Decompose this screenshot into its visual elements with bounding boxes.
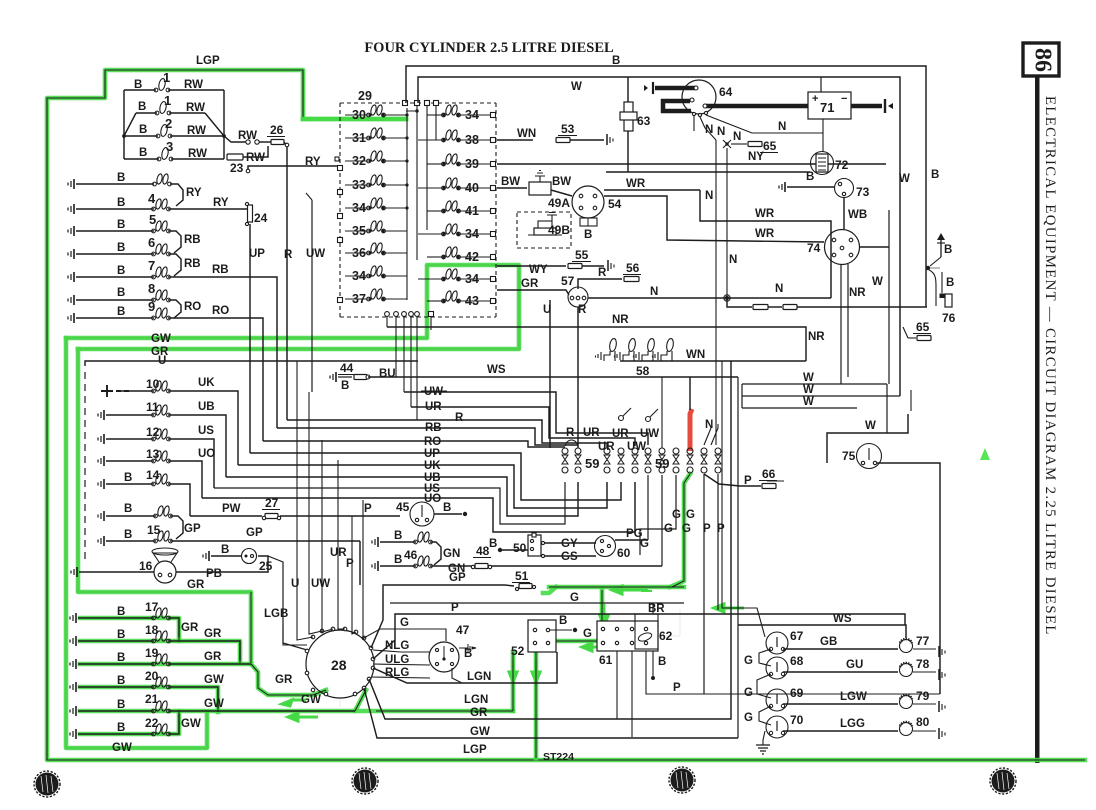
svg-text:B: B bbox=[117, 306, 125, 318]
svg-text:UP: UP bbox=[249, 248, 265, 260]
wire 44 BU bbox=[330, 361, 396, 392]
svg-text:37: 37 bbox=[352, 292, 366, 306]
svg-text:WR: WR bbox=[755, 208, 775, 220]
svg-text:RB: RB bbox=[184, 258, 201, 270]
svg-text:GW: GW bbox=[204, 698, 224, 710]
green wire label LGP top bbox=[196, 55, 220, 67]
svg-text:2: 2 bbox=[165, 116, 172, 131]
wire GP lower bbox=[359, 541, 361, 585]
wire LGG 80 bbox=[783, 718, 898, 731]
label GP line15 bbox=[246, 527, 263, 539]
label G near 51 bbox=[570, 592, 579, 604]
svg-text:+: + bbox=[812, 93, 818, 105]
wire R to fuse 56 bbox=[578, 261, 641, 289]
labels fan U UW bbox=[291, 578, 330, 590]
coil 31 left column y138 bbox=[345, 127, 407, 145]
svg-text:29: 29 bbox=[358, 89, 372, 103]
label B 8 bbox=[117, 281, 155, 299]
label B 5 bbox=[117, 212, 156, 231]
svg-text:73: 73 bbox=[856, 185, 870, 199]
labels fan UR P bbox=[330, 547, 354, 570]
svg-text:W: W bbox=[865, 420, 876, 432]
connector box 29 dashed outline bbox=[340, 89, 496, 317]
svg-text:GY: GY bbox=[561, 538, 578, 550]
svg-text:B: B bbox=[117, 629, 125, 641]
svg-text:B: B bbox=[139, 147, 147, 159]
green wire G 51 fuse run bbox=[549, 585, 684, 590]
glow plug 1a row bbox=[124, 78, 224, 92]
svg-text:B: B bbox=[117, 699, 125, 711]
svg-text:9: 9 bbox=[148, 299, 155, 314]
svg-text:B: B bbox=[559, 615, 567, 627]
component 18 bbox=[70, 623, 240, 660]
relay 49B dashed box bbox=[517, 212, 571, 248]
svg-text:G: G bbox=[744, 712, 753, 724]
wire NR band bbox=[387, 314, 825, 361]
svg-text:GR: GR bbox=[275, 674, 293, 686]
connector 61 62 bbox=[597, 621, 658, 667]
component 6 bbox=[68, 243, 181, 276]
svg-text:B: B bbox=[117, 197, 125, 209]
label 59 first bbox=[585, 456, 599, 471]
wire 23 RW hook bbox=[243, 146, 268, 164]
wire 25 down LGB bbox=[264, 556, 307, 650]
svg-text:20: 20 bbox=[145, 669, 159, 683]
svg-text:54: 54 bbox=[608, 197, 622, 211]
svg-text:N: N bbox=[729, 254, 737, 266]
svg-text:B: B bbox=[134, 79, 142, 91]
wire LGN upper bbox=[339, 698, 341, 707]
green wire 59 pin down bbox=[670, 474, 690, 587]
wire 59 G drops bbox=[640, 475, 676, 566]
wire RB stair bbox=[277, 428, 578, 445]
green wire item18 row bbox=[80, 641, 240, 663]
svg-text:GU: GU bbox=[846, 659, 863, 671]
svg-text:B: B bbox=[117, 242, 125, 254]
svg-text:B: B bbox=[117, 287, 125, 299]
svg-text:B: B bbox=[117, 172, 125, 184]
svg-text:49A: 49A bbox=[548, 196, 570, 210]
wire cluster left upper bbox=[283, 625, 307, 645]
wire B dot 52 bbox=[550, 615, 577, 632]
svg-text:U: U bbox=[158, 355, 166, 367]
svg-text:LGP: LGP bbox=[196, 55, 220, 67]
wire NR from 74 bbox=[848, 264, 866, 377]
wire W down from 74 bbox=[840, 264, 842, 384]
glow plug 2 row bbox=[125, 124, 224, 138]
wire N diag to 72 bbox=[706, 115, 823, 152]
label RB line bbox=[425, 422, 442, 434]
connector box bottom pins bbox=[385, 312, 434, 317]
svg-text:42: 42 bbox=[465, 250, 479, 264]
label GW green line bbox=[151, 333, 171, 345]
svg-text:W: W bbox=[899, 173, 910, 185]
component 64 starter solenoid bbox=[682, 80, 733, 114]
component 19 bbox=[70, 646, 251, 669]
wire GY bbox=[545, 538, 596, 550]
svg-text:ULG: ULG bbox=[385, 654, 409, 666]
wire P 62 down bbox=[646, 651, 940, 694]
wire feed 67 bbox=[722, 361, 765, 637]
svg-text:23: 23 bbox=[230, 161, 244, 175]
wire GR row to 57 bbox=[497, 278, 569, 295]
label B 3 RW row4 bbox=[139, 139, 207, 160]
svg-text:G: G bbox=[664, 523, 673, 535]
wire WN row bbox=[497, 122, 613, 145]
wire 58 drop to 59 bbox=[661, 377, 663, 448]
svg-text:UR: UR bbox=[583, 427, 600, 439]
svg-text:25: 25 bbox=[259, 559, 273, 573]
svg-text:B: B bbox=[124, 472, 132, 484]
svg-text:PB: PB bbox=[206, 568, 222, 580]
green arrows misc bbox=[509, 586, 744, 682]
label B 4 bbox=[117, 191, 229, 209]
svg-text:B: B bbox=[946, 277, 954, 289]
label GN hook46 bbox=[443, 548, 460, 560]
wire WN 58 row bbox=[620, 349, 806, 361]
lamp 77 bbox=[900, 634, 946, 657]
sidebar thick rule bbox=[1035, 75, 1040, 763]
svg-text:49B: 49B bbox=[548, 223, 570, 237]
svg-text:GR: GR bbox=[521, 278, 539, 290]
connector 59 bank2 pins bbox=[659, 448, 721, 473]
svg-text:N: N bbox=[775, 283, 783, 295]
svg-text:B: B bbox=[944, 244, 952, 256]
component 8 bbox=[68, 289, 181, 318]
coil 34 left column y276 bbox=[345, 265, 407, 283]
svg-text:B: B bbox=[117, 675, 125, 687]
svg-text:30: 30 bbox=[352, 108, 366, 122]
svg-text:19: 19 bbox=[145, 646, 159, 660]
component 21 bbox=[70, 692, 355, 716]
glow plug diagonals bbox=[122, 113, 226, 138]
svg-text:16: 16 bbox=[139, 559, 153, 573]
wire GW bottom bbox=[364, 688, 738, 738]
label GW bottomleft bbox=[112, 742, 132, 754]
title FOUR CYLINDER 2.5 LITRE DIESEL bbox=[364, 40, 614, 56]
svg-text:B: B bbox=[139, 124, 147, 136]
green wire row30 highlight bbox=[303, 117, 406, 122]
coil 43 right column y301 bbox=[427, 290, 496, 308]
svg-text:GW: GW bbox=[181, 718, 201, 730]
svg-text:86: 86 bbox=[1029, 48, 1055, 72]
svg-text:28: 28 bbox=[331, 657, 347, 673]
svg-text:77: 77 bbox=[916, 634, 930, 648]
svg-text:GW: GW bbox=[112, 742, 132, 754]
svg-text:P: P bbox=[364, 503, 372, 515]
label R line bbox=[455, 412, 464, 424]
svg-text:UK: UK bbox=[198, 377, 215, 389]
wire UP stair bbox=[250, 448, 621, 500]
svg-text:LGW: LGW bbox=[840, 691, 867, 703]
label RB hook6 bbox=[184, 258, 201, 270]
svg-text:P: P bbox=[744, 475, 752, 487]
wire P from cluster bbox=[373, 602, 905, 659]
svg-text:72: 72 bbox=[835, 158, 849, 172]
svg-text:N: N bbox=[705, 190, 713, 202]
wire GP from cluster bbox=[371, 572, 514, 648]
svg-text:WN: WN bbox=[517, 128, 536, 140]
fuse 26 bbox=[267, 123, 285, 145]
wire fuse26 down bbox=[284, 142, 289, 166]
wire W to 75 bbox=[827, 384, 911, 463]
svg-text:75: 75 bbox=[842, 449, 856, 463]
green wire item17 loop bbox=[80, 618, 179, 641]
wire BW row bbox=[497, 176, 527, 188]
svg-text:64: 64 bbox=[719, 85, 733, 99]
wire P66 bbox=[704, 467, 784, 489]
svg-text:21: 21 bbox=[145, 692, 159, 706]
switch 68 bbox=[766, 654, 804, 679]
svg-text:52: 52 bbox=[511, 644, 525, 658]
wire RLG bbox=[371, 667, 430, 679]
svg-text:33: 33 bbox=[352, 178, 366, 192]
wire W right of 74 bbox=[859, 210, 889, 384]
svg-text:W: W bbox=[571, 81, 582, 93]
svg-text:RY: RY bbox=[213, 197, 229, 209]
svg-text:UB: UB bbox=[198, 401, 215, 413]
svg-text:GB: GB bbox=[820, 636, 837, 648]
wire RW to fuse 26 bbox=[224, 130, 271, 144]
coil 34 right column y115 bbox=[427, 104, 496, 122]
svg-text:1: 1 bbox=[163, 70, 170, 85]
svg-text:65: 65 bbox=[916, 320, 930, 334]
component 22 bbox=[70, 714, 179, 739]
lamp 45 bbox=[396, 500, 434, 526]
svg-text:GW: GW bbox=[151, 333, 171, 345]
coil 41 right column y211 bbox=[427, 200, 496, 218]
label ST224 bbox=[543, 751, 574, 763]
component 74 bbox=[807, 230, 860, 265]
switch 67 bbox=[766, 629, 804, 654]
svg-text:B: B bbox=[117, 652, 125, 664]
svg-text:W: W bbox=[803, 384, 814, 396]
wire WB 73 to 74 bbox=[844, 198, 867, 229]
svg-text:38: 38 bbox=[465, 133, 479, 147]
svg-text:U: U bbox=[291, 578, 299, 590]
svg-text:41: 41 bbox=[465, 204, 479, 218]
lamp 75 bbox=[842, 444, 882, 469]
svg-text:36: 36 bbox=[352, 246, 366, 260]
svg-text:B: B bbox=[806, 171, 814, 183]
coil 36 left column y253 bbox=[345, 242, 407, 260]
wire N left vert bbox=[705, 140, 737, 445]
svg-text:51: 51 bbox=[515, 569, 529, 583]
svg-text:B: B bbox=[117, 722, 125, 734]
64 lower pins bbox=[692, 111, 707, 116]
wire BR feed line bbox=[390, 602, 684, 604]
green wire GW lower bbox=[355, 709, 513, 714]
thick bar 64 to 71 bbox=[703, 104, 810, 108]
svg-text:56: 56 bbox=[626, 261, 640, 275]
svg-text:GR: GR bbox=[204, 628, 222, 640]
component 15 upper bbox=[98, 503, 183, 539]
svg-text:PG: PG bbox=[626, 528, 643, 540]
wire UK stair bbox=[238, 460, 607, 508]
wire WS to lamps bbox=[738, 613, 906, 638]
svg-text:WR: WR bbox=[755, 228, 775, 240]
svg-text:1: 1 bbox=[164, 93, 171, 108]
green wire GW row to instrument bbox=[218, 690, 366, 711]
svg-text:RO: RO bbox=[212, 305, 229, 317]
svg-text:78: 78 bbox=[916, 657, 930, 671]
component 9 bbox=[68, 307, 263, 441]
switch 69 bbox=[766, 686, 804, 711]
wire NLG bbox=[373, 640, 430, 652]
coil 39 right column y164 bbox=[427, 153, 496, 171]
green wire GW left vertical bbox=[66, 338, 207, 748]
wire W line1 bbox=[742, 372, 887, 384]
wire W top bbox=[418, 77, 910, 396]
left dashed bracket 10-16 bbox=[84, 372, 86, 560]
wire WR b to 74 bbox=[604, 196, 824, 242]
svg-text:FOUR CYLINDER 2.5 LITRE DIESEL: FOUR CYLINDER 2.5 LITRE DIESEL bbox=[364, 40, 614, 56]
upper circles UR UW bbox=[566, 408, 659, 440]
fuse 24 bbox=[245, 202, 267, 225]
cluster pins bbox=[305, 627, 375, 696]
svg-text:G: G bbox=[400, 617, 409, 629]
lamp 79 bbox=[900, 689, 946, 712]
svg-text:44: 44 bbox=[340, 361, 354, 375]
svg-text:79: 79 bbox=[916, 689, 930, 703]
green wire item22 loop bbox=[80, 711, 179, 734]
svg-text:65: 65 bbox=[763, 139, 777, 153]
registration mark 3 bbox=[669, 767, 695, 793]
wire B from 45 bbox=[434, 502, 467, 516]
svg-text:GP: GP bbox=[449, 572, 466, 584]
wire PG bbox=[615, 528, 648, 540]
instrument cluster 28 bbox=[306, 630, 374, 698]
svg-text:N: N bbox=[705, 419, 713, 431]
svg-text:B: B bbox=[117, 265, 125, 277]
wire N 64 drop a bbox=[694, 116, 713, 136]
svg-text:NR: NR bbox=[849, 287, 866, 299]
glow plug 3 row bbox=[124, 147, 224, 161]
svg-text:34: 34 bbox=[465, 108, 479, 122]
svg-text:3: 3 bbox=[166, 139, 173, 154]
svg-text:55: 55 bbox=[575, 248, 589, 262]
red wire at connector 59 bbox=[690, 409, 692, 451]
svg-text:P: P bbox=[703, 523, 711, 535]
wire RY horizontal bbox=[246, 166, 340, 173]
connector box internal verticals bbox=[405, 106, 436, 300]
wire B below 62 bbox=[651, 651, 666, 680]
wire WY row bbox=[497, 248, 614, 276]
svg-text:57: 57 bbox=[561, 274, 575, 288]
svg-text:UW: UW bbox=[627, 441, 646, 453]
label UP bbox=[249, 248, 265, 260]
connector box left pins bbox=[335, 157, 343, 303]
label B 1 RW row2 bbox=[138, 93, 205, 114]
svg-text:B: B bbox=[658, 656, 666, 668]
registration mark 4 bbox=[990, 768, 1016, 794]
component 4 lower bbox=[68, 198, 247, 214]
wire B top bbox=[406, 55, 939, 307]
component 73 bbox=[835, 179, 870, 200]
svg-text:G: G bbox=[744, 687, 753, 699]
svg-text:NR: NR bbox=[808, 331, 825, 343]
green wire LGP top right short bbox=[303, 117, 406, 122]
wire UW vert from U bbox=[306, 193, 325, 392]
wire US stair bbox=[214, 482, 565, 524]
green wire item20 row bbox=[80, 687, 218, 712]
svg-text:50: 50 bbox=[513, 541, 527, 555]
wire R vertical from 26 bbox=[286, 166, 288, 420]
label B 6 bbox=[117, 235, 155, 254]
svg-text:5: 5 bbox=[149, 212, 156, 227]
component 17 bbox=[70, 600, 179, 637]
svg-text:N: N bbox=[717, 126, 725, 138]
battery 71 bbox=[808, 92, 851, 119]
svg-text:70: 70 bbox=[790, 713, 804, 727]
wire WR from 54 bbox=[604, 178, 700, 190]
svg-text:60: 60 bbox=[617, 546, 631, 560]
thick bar 71 right bbox=[851, 99, 893, 113]
wire W line2 bbox=[742, 384, 900, 396]
wire LGW 79 bbox=[783, 691, 898, 704]
svg-text:WY: WY bbox=[529, 264, 548, 276]
svg-text:LGN: LGN bbox=[467, 671, 491, 683]
svg-text:R: R bbox=[598, 267, 607, 279]
G chain 69-70 bbox=[744, 706, 771, 725]
fuse 51 bbox=[512, 569, 536, 591]
coil 37 left column y299 bbox=[345, 288, 407, 306]
svg-text:N: N bbox=[778, 121, 786, 133]
snap connector junction bbox=[926, 257, 941, 306]
black core GR2 bbox=[78, 349, 251, 663]
green wire 61 vertical drop bbox=[600, 590, 605, 628]
svg-text:LGP: LGP bbox=[463, 744, 487, 756]
svg-text:UO: UO bbox=[198, 448, 215, 460]
wire red feed bbox=[689, 377, 691, 410]
black cores bottom greens bbox=[179, 474, 690, 758]
svg-text:BW: BW bbox=[501, 176, 520, 188]
black core GW bbox=[66, 265, 519, 349]
wire feed C bbox=[737, 377, 739, 738]
wire top right B entry bbox=[627, 77, 629, 102]
wire GB 77 bbox=[783, 636, 898, 649]
connector 62 part bbox=[635, 614, 673, 649]
svg-text:G: G bbox=[672, 509, 681, 521]
coil 35 left column y231 bbox=[345, 220, 407, 238]
svg-text:US: US bbox=[198, 425, 214, 437]
glow plug 1b row bbox=[136, 101, 205, 115]
svg-text:P: P bbox=[673, 682, 681, 694]
green arrow marks GW bbox=[282, 700, 318, 721]
labels G G bbox=[664, 509, 695, 535]
svg-text:15: 15 bbox=[147, 523, 161, 537]
svg-text:B: B bbox=[124, 529, 132, 541]
svg-text:8: 8 bbox=[148, 281, 155, 296]
svg-text:76: 76 bbox=[942, 311, 956, 325]
svg-text:LGG: LGG bbox=[840, 718, 865, 730]
svg-text:UR: UR bbox=[612, 428, 629, 440]
component 4 upper bbox=[68, 173, 183, 206]
svg-text:46: 46 bbox=[404, 548, 418, 562]
connector box top pins bbox=[403, 101, 439, 106]
svg-text:RLG: RLG bbox=[385, 667, 409, 679]
wire B dot 50 bbox=[489, 538, 528, 552]
svg-text:67: 67 bbox=[790, 629, 804, 643]
svg-text:RB: RB bbox=[184, 234, 201, 246]
G chain 67-68 bbox=[744, 649, 771, 667]
green wire item19 row bbox=[80, 662, 251, 667]
svg-text:RO: RO bbox=[184, 301, 201, 313]
wire G to 47 bbox=[362, 617, 446, 641]
svg-text:G: G bbox=[744, 655, 753, 667]
svg-text:GS: GS bbox=[561, 551, 578, 563]
label GR green line bbox=[151, 346, 169, 358]
